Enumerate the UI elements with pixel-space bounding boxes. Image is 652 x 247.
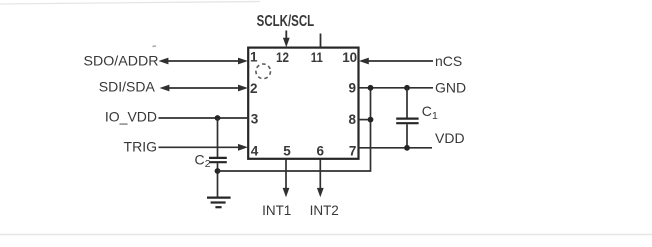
svg-text:nCS: nCS: [435, 53, 462, 69]
pin 10 number: [342, 50, 357, 65]
svg-text:VDD: VDD: [435, 130, 465, 146]
svg-text:GND: GND: [435, 80, 466, 96]
pin 11 number: [311, 50, 323, 65]
label TRIG: [124, 139, 157, 155]
junction: VDD rail / C1 bottom: [404, 145, 410, 151]
svg-text:1: 1: [250, 50, 258, 65]
svg-text:INT1: INT1: [262, 203, 291, 218]
label GND: [435, 80, 466, 96]
pin 8 number: [348, 112, 356, 127]
svg-text:7: 7: [349, 144, 357, 159]
junction: pin 9 / ground riser: [368, 85, 374, 91]
label VDD: [435, 130, 465, 146]
label C2: [195, 151, 211, 170]
label C1: [422, 103, 438, 122]
pin 1 number: [250, 50, 258, 65]
wire: INT1 output arrow from pin 5: [283, 160, 290, 198]
svg-text:4: 4: [251, 144, 259, 159]
wire: SDI/SDA bidirectional to pin 2: [160, 85, 248, 92]
IC U1 body (12-pin LGA package outline): [248, 48, 358, 159]
orientation mark: pin-1 dashed circle: [256, 64, 271, 79]
label SDO/ADDR: [84, 53, 159, 69]
svg-text:C: C: [422, 103, 432, 119]
junction: IO_VDD / C2 node: [215, 115, 221, 121]
junction: C2 bottom / ground net node: [215, 168, 221, 174]
pin 2 number: [250, 81, 258, 96]
svg-text:10: 10: [342, 50, 357, 65]
label nCS: [435, 53, 462, 69]
svg-text:SDO/ADDR: SDO/ADDR: [84, 53, 159, 69]
label IO_VDD: [105, 109, 157, 125]
wire: nCS input arrow into pin 10: [359, 58, 433, 65]
label INT2: [310, 203, 339, 218]
scan artifact: faint top line: [0, 2, 260, 5]
svg-text:INT2: INT2: [310, 203, 339, 218]
capacitor C1 (between GND rail and VDD rail): [396, 88, 418, 148]
label INT1: [262, 203, 291, 218]
pin 9 number: [348, 80, 356, 95]
pin 6 number: [317, 144, 325, 159]
label SCLK/SCL (bold, above pin 12 arrow): [257, 13, 315, 30]
junction: GND rail / C1 top: [404, 85, 410, 91]
pin 12 number: [276, 50, 289, 65]
svg-text:SCLK/SCL: SCLK/SCL: [257, 13, 315, 30]
wire: pin 9 to GND label: [359, 87, 434, 89]
svg-text:8: 8: [348, 112, 356, 127]
pin 7 number: [349, 144, 357, 159]
wire: IO_VDD to pin 3: [159, 117, 249, 119]
wire: ground riser (pins 8 and 9 to ground return): [370, 88, 372, 172]
pin 3 number: [251, 112, 259, 127]
svg-text:2: 2: [205, 158, 211, 170]
svg-text:SDI/SDA: SDI/SDA: [99, 78, 156, 94]
wire: pin 8 stub to ground riser: [359, 119, 371, 121]
junction: pin 8 / ground riser: [368, 117, 374, 123]
wire: pin 7 to VDD rail: [359, 147, 433, 149]
pin 4 number: [251, 144, 259, 159]
svg-text:3: 3: [251, 112, 259, 127]
wire: SCLK/SCL input arrow into pin 12: [283, 31, 290, 48]
svg-text:6: 6: [317, 144, 325, 159]
svg-text:5: 5: [283, 144, 291, 159]
svg-text:1: 1: [432, 110, 438, 122]
svg-text:12: 12: [276, 50, 289, 65]
wire: ground return under IC (C2 node to right riser): [218, 170, 371, 172]
scan artifact: small gray dash above SDO/ADDR: [153, 45, 157, 47]
svg-text:TRIG: TRIG: [124, 139, 157, 155]
scan artifact: faint bottom rule: [0, 234, 652, 236]
svg-text:C: C: [195, 151, 205, 167]
svg-text:9: 9: [348, 80, 356, 95]
label SDI/SDA: [99, 78, 156, 94]
svg-text:2: 2: [250, 81, 258, 96]
svg-text:IO_VDD: IO_VDD: [105, 109, 157, 125]
pin 5 number: [283, 144, 291, 159]
wire: pin 11 stub (no-connect): [320, 34, 322, 48]
ground symbol: [207, 198, 231, 208]
svg-text:11: 11: [311, 50, 323, 65]
wire: SDO/ADDR bidirectional to pin 1: [159, 58, 248, 65]
wire: TRIG input arrow into pin 4: [159, 144, 248, 151]
capacitor C2 (top plate lead from IO_VDD node): [209, 118, 227, 197]
wire: INT2 output arrow from pin 6: [317, 160, 324, 198]
